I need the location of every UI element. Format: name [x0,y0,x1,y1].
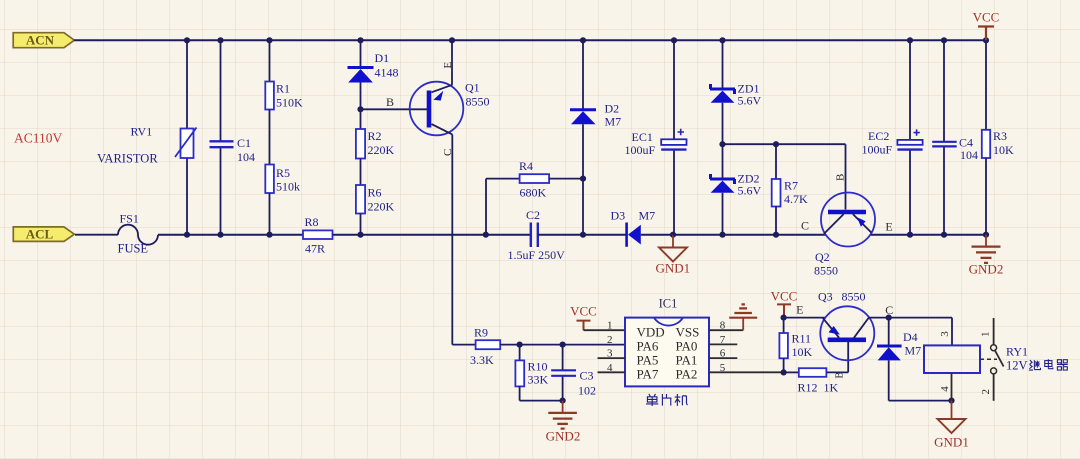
power VCC at Q3 emitter [771,289,798,318]
svg-text:R6: R6 [368,186,382,200]
svg-text:AC110V: AC110V [14,131,63,146]
svg-text:R12: R12 [798,381,818,395]
svg-text:8550: 8550 [814,264,838,278]
wire bottom rail mid [333,234,531,236]
svg-text:GND2: GND2 [546,429,581,444]
resistor R4 680K [486,159,583,235]
svg-text:B: B [835,174,847,181]
wire Q1 collector down to R9 [452,134,475,344]
svg-text:GND1: GND1 [655,261,690,276]
svg-text:1: 1 [980,332,992,338]
svg-text:R5: R5 [276,166,290,180]
svg-text:Q3: Q3 [818,290,833,304]
svg-text:R7: R7 [784,179,798,193]
IC right pin stubs pins 8,7,6 and pin5 wire [709,330,784,372]
svg-text:4148: 4148 [375,66,399,80]
svg-text:VARISTOR: VARISTOR [97,152,158,166]
resistor R7 4.7K [772,144,808,235]
svg-text:M7: M7 [605,115,622,129]
relay switch contact 1 [980,318,997,351]
svg-text:IC1: IC1 [659,297,678,311]
svg-text:8: 8 [720,320,726,332]
svg-text:D3: D3 [611,209,626,223]
svg-text:ACL: ACL [26,227,54,242]
svg-text:M7: M7 [905,344,922,358]
wire IC pin1 [584,329,626,331]
transistor Q2 8550 [801,174,893,278]
svg-text:8550: 8550 [466,95,490,109]
resistor R12 1K [781,342,849,395]
svg-text:R11: R11 [792,332,812,346]
svg-text:PA1: PA1 [676,352,698,367]
svg-text:C2: C2 [526,208,540,222]
svg-text:R10: R10 [528,360,548,374]
ground GND1 right [934,401,969,450]
svg-text:104: 104 [237,150,255,164]
ground GND1 mid [655,232,690,276]
svg-text:220K: 220K [368,200,395,214]
svg-text:220K: 220K [368,143,395,157]
svg-text:4: 4 [607,362,613,374]
svg-text:FS1: FS1 [120,212,139,226]
ground GND2 bottom [546,401,581,444]
svg-text:Q1: Q1 [465,81,480,95]
svg-text:VCC: VCC [570,304,597,319]
svg-text:D1: D1 [375,51,390,65]
svg-text:R3: R3 [993,129,1007,143]
svg-text:B: B [835,372,846,379]
svg-text:EC2: EC2 [868,129,889,143]
resistor R10 33K [515,345,562,401]
resistor R11 10K [779,318,812,373]
IC left pin stubs pins 3,4 [598,358,626,372]
resistor R3 10K [982,40,1014,234]
svg-text:1K: 1K [824,381,839,395]
port ACL [13,227,74,242]
wire bottom rail right [871,234,986,236]
capacitor C3 102 [551,345,596,404]
transistor Q1 8550 [410,40,490,156]
svg-text:R2: R2 [368,129,382,143]
svg-text:GND1: GND1 [934,435,969,450]
IC U1 box IC1 [625,297,709,387]
svg-text:C: C [801,219,809,233]
wire zener junction to Q2 base [719,141,845,209]
svg-text:7: 7 [720,334,726,346]
resistor R2 [356,129,395,185]
svg-text:510K: 510K [276,96,303,110]
resistor R9 3.3K [470,326,500,368]
relay switch arm [995,351,1004,367]
svg-text:VDD: VDD [637,325,665,340]
svg-text:2: 2 [607,334,613,346]
svg-text:102: 102 [578,384,596,398]
wire D4 to relay pin4 [889,398,955,404]
svg-text:33K: 33K [528,373,549,387]
svg-text:B: B [386,95,394,109]
svg-text:E: E [885,220,892,234]
svg-text:PA5: PA5 [637,352,659,367]
node B wire (D1/R2 to Q1 base) [357,95,427,112]
svg-text:4.7K: 4.7K [784,192,808,206]
electrolytic capacitor EC2 100uF [862,40,923,234]
svg-text:3: 3 [939,331,951,337]
wire top rail ACN [74,39,986,41]
label RY1 12V relay [1006,345,1068,373]
port ACN [13,32,74,47]
relay switch contact 2 [980,368,997,401]
svg-text:PA7: PA7 [637,366,659,381]
svg-text:100uF: 100uF [625,143,656,157]
zener ZD2 5.6V [710,172,762,235]
svg-text:3: 3 [607,348,613,360]
svg-text:PA2: PA2 [676,366,698,381]
svg-text:C1: C1 [237,136,251,150]
svg-text:510k: 510k [276,180,300,194]
diode D2 M7 [570,40,621,234]
svg-text:C3: C3 [580,369,594,383]
svg-text:5.6V: 5.6V [738,94,762,108]
svg-text:4: 4 [939,386,951,392]
fuse FS1 [75,212,158,256]
IC pin names [637,325,700,382]
zener ZD1 5.6V [710,40,762,179]
relay linkage dashed [980,358,997,360]
svg-text:D4: D4 [903,330,918,344]
svg-text:8550: 8550 [842,290,866,304]
resistor R8 47R [303,215,333,256]
svg-text:100uF: 100uF [862,143,893,157]
electrolytic capacitor EC1 100uF [625,40,687,234]
ground GND2 right [969,235,1004,277]
wire pin2 net [500,342,625,348]
svg-text:3.3K: 3.3K [470,353,494,367]
svg-text:1.5uF 250V: 1.5uF 250V [508,248,566,262]
svg-text:1: 1 [607,320,613,332]
svg-text:EC1: EC1 [632,130,653,144]
svg-text:10K: 10K [993,143,1014,157]
power VCC top right [973,10,1000,41]
svg-text:R8: R8 [305,215,319,229]
capacitor C4 104 [932,40,978,234]
svg-text:Q2: Q2 [815,250,830,264]
resistor R5 [265,110,300,235]
capacitor C1 [210,40,256,234]
svg-text:D2: D2 [605,102,620,116]
svg-text:VCC: VCC [973,10,1000,25]
svg-text:R9: R9 [474,326,488,340]
svg-text:RY1: RY1 [1006,345,1028,359]
capacitor C2 1.5uF 250V [508,208,627,262]
diode D4 M7 [877,318,921,401]
resistor R1 [265,40,303,109]
power VCC at IC pin1 [570,304,597,331]
varistor RV1 [97,40,197,234]
resistor R6 [356,185,395,235]
wire Q3 collector to relay pin3 [869,315,952,346]
wire VCC to Q3 emitter [781,303,826,321]
svg-text:R4: R4 [519,159,533,173]
svg-text:2: 2 [980,389,992,395]
svg-text:104: 104 [960,148,978,162]
svg-text:5.6V: 5.6V [738,184,762,198]
svg-text:VCC: VCC [771,289,798,304]
svg-text:47R: 47R [305,242,325,256]
svg-text:R1: R1 [276,82,290,96]
transistor Q3 8550 [818,290,893,361]
svg-text:12V: 12V [1006,359,1028,373]
svg-text:6: 6 [720,348,726,360]
diode D1 4148 [348,40,399,129]
diode D3 M7 [611,209,674,247]
svg-text:M7: M7 [639,209,656,223]
svg-text:E: E [796,303,803,317]
svg-text:GND2: GND2 [969,262,1004,277]
IC pin numbers left [607,320,613,374]
svg-text:5: 5 [720,362,726,374]
svg-text:RV1: RV1 [131,125,153,139]
junction dots top rail [184,37,989,43]
label 单片机 (microcontroller) [646,394,687,406]
ground earth at IC pin8 [729,304,757,330]
svg-text:E: E [442,62,454,69]
wire bottom rail left [158,234,303,236]
wire bottom rail GND1 segment [673,234,826,236]
relay RY1 coil box [924,331,980,401]
svg-text:VSS: VSS [676,325,700,340]
svg-text:FUSE: FUSE [118,242,149,256]
junction dots bottom rail left [184,232,273,238]
IC pin numbers right [720,320,726,374]
svg-text:680K: 680K [520,186,547,200]
svg-text:ACN: ACN [26,32,55,47]
svg-text:10K: 10K [792,345,813,359]
